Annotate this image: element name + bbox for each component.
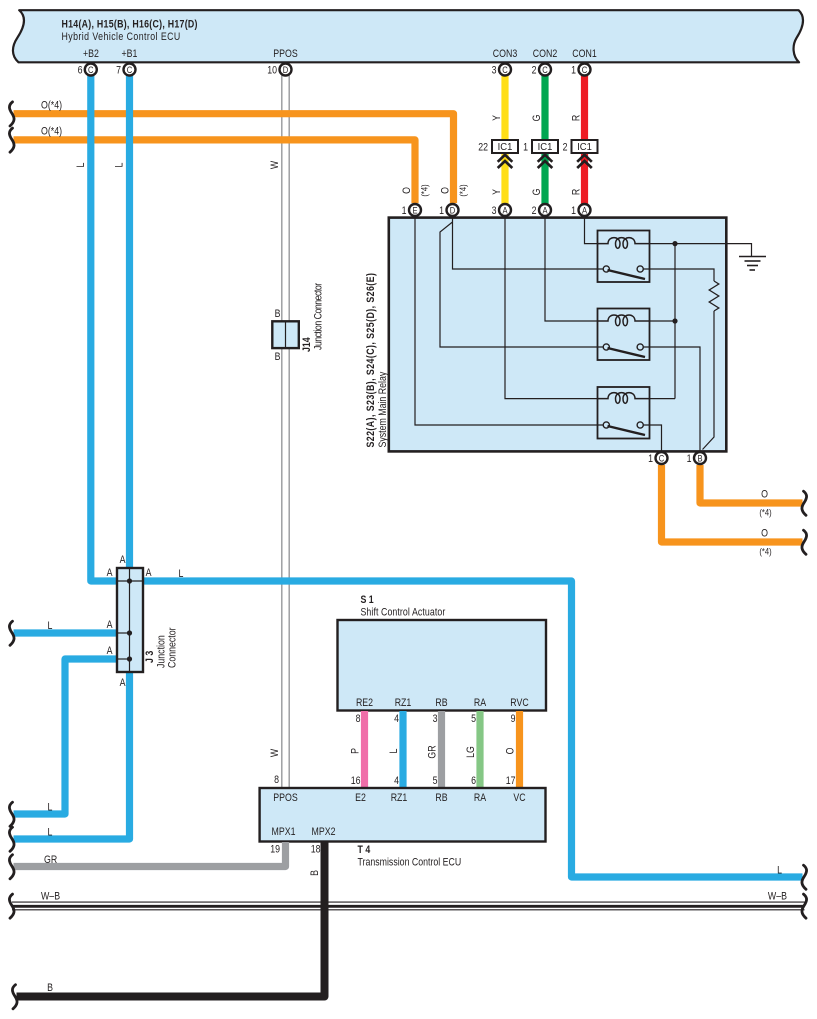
wire L blue from +B2 pin 6(C) down to J3: [91, 70, 117, 581]
svg-text:L: L: [114, 162, 126, 167]
torn end lower L wire: [9, 802, 14, 826]
svg-text:B: B: [47, 982, 53, 994]
wire L blue from left edge to J3 middle: [14, 629, 118, 636]
pin 1(E) of relay: [402, 204, 421, 217]
svg-text:1: 1: [402, 205, 407, 217]
svg-text:1: 1: [571, 205, 576, 217]
svg-text:O(*4): O(*4): [41, 100, 62, 112]
svg-text:2: 2: [563, 142, 568, 154]
svg-text:C: C: [542, 64, 547, 75]
torn end W-B left: [9, 894, 14, 918]
pin 7(C) of HV ECU: [116, 64, 135, 77]
wire R red CON1 to relay pin 1(A): [581, 70, 588, 204]
svg-text:Y: Y: [491, 189, 503, 195]
svg-text:5: 5: [471, 713, 476, 725]
svg-text:C: C: [127, 64, 132, 75]
svg-text:1: 1: [571, 65, 576, 77]
wire PPOS white W from HV ECU pin 10(D) to T4 pin 8: [282, 70, 289, 788]
svg-text:3: 3: [492, 205, 497, 217]
svg-text:D: D: [283, 64, 288, 75]
wire O(*4) lower orange from left edge to relay pin 1(E): [14, 140, 416, 203]
svg-text:1: 1: [439, 205, 444, 217]
svg-text:W: W: [269, 160, 281, 169]
svg-text:PPOS: PPOS: [273, 48, 298, 60]
junction connector J3: [107, 554, 184, 689]
svg-text:(*4): (*4): [759, 546, 771, 557]
svg-text:LG: LG: [465, 746, 477, 758]
torn end upper orange wire: [9, 102, 14, 126]
svg-text:A: A: [120, 677, 126, 689]
pin 2(C) of HV ECU: [532, 64, 551, 77]
svg-text:L: L: [48, 802, 53, 814]
wire GR gray S1 RB to T4 pin 5: [438, 711, 445, 788]
svg-text:P: P: [350, 748, 362, 754]
pin 1(C) of relay bottom: [648, 452, 667, 465]
svg-text:17: 17: [506, 775, 516, 787]
svg-text:O: O: [401, 187, 413, 194]
svg-text:L: L: [179, 568, 184, 580]
torn end right L wire: [802, 865, 807, 889]
torn end pin B orange wire: [802, 491, 807, 515]
wire L blue from J3 to right then down to right edge: [143, 581, 803, 877]
junction dot coil bus top: [672, 241, 677, 246]
svg-text:GR: GR: [44, 854, 57, 866]
svg-text:18: 18: [311, 844, 321, 856]
svg-text:W–B: W–B: [41, 891, 60, 903]
relay 1: [598, 231, 650, 283]
relay 2: [598, 309, 650, 361]
svg-text:7: 7: [116, 65, 121, 77]
junction dot coil bus middle: [672, 318, 677, 323]
svg-text:L: L: [388, 748, 400, 753]
svg-text:(*4): (*4): [457, 184, 468, 196]
relay 1 switch: [603, 266, 609, 272]
svg-text:RZ1: RZ1: [395, 697, 412, 709]
svg-text:A: A: [107, 567, 113, 579]
torn end mid L wire: [9, 621, 14, 645]
wire G green CON2 to relay pin 2(A): [541, 70, 548, 204]
ground: [739, 257, 766, 271]
svg-text:(*4): (*4): [419, 184, 430, 196]
svg-text:B: B: [275, 351, 281, 363]
svg-text:6: 6: [471, 775, 476, 787]
pin 1(C) of HV ECU: [571, 64, 590, 77]
wire from relay pin 1(E) to relay 3 switch: [415, 217, 603, 425]
svg-text:B: B: [697, 453, 702, 464]
Shift Control Actuator S1 box: [338, 594, 547, 710]
svg-text:RA: RA: [474, 792, 487, 804]
junction connector IC1 on yellow wire pin 22: [478, 140, 518, 168]
svg-text:W: W: [269, 748, 281, 757]
svg-text:(*4): (*4): [759, 507, 771, 518]
wire O(*4) upper orange from left edge to relay pin 1(D): [14, 114, 454, 203]
svg-text:GR: GR: [427, 745, 439, 758]
wire from relay pin 1(D) to relay 1 switch: [453, 217, 604, 269]
svg-text:S22(A), S23(B), S24(C), S25(D): S22(A), S23(B), S24(C), S25(D), S26(E): [365, 273, 377, 447]
svg-text:L: L: [75, 162, 87, 167]
wire W-B from left edge to right edge: [12, 902, 805, 910]
svg-text:2: 2: [532, 65, 537, 77]
relay 1 coil: [598, 238, 650, 249]
svg-text:6: 6: [78, 65, 83, 77]
svg-text:J14: J14: [301, 337, 313, 352]
svg-text:T 4: T 4: [358, 844, 371, 856]
svg-text:10: 10: [267, 65, 277, 77]
svg-text:R: R: [571, 189, 583, 195]
pin 1(D) of relay: [439, 204, 458, 217]
svg-text:B: B: [309, 870, 321, 876]
relay 3 coil: [598, 393, 650, 404]
wire from relay pin 1(A) to relay 1 coil: [585, 217, 598, 244]
wire L blue from J3 lower-left to left edge: [14, 659, 118, 814]
pin 3(C) of HV ECU: [492, 64, 511, 77]
relay 2 switch: [603, 344, 609, 350]
svg-text:9: 9: [511, 713, 516, 725]
pin 1(A) of relay: [571, 204, 590, 217]
svg-text:W–B: W–B: [768, 891, 787, 903]
wire branch from pin 1(D) to relay 2 switch: [440, 222, 603, 347]
svg-text:3: 3: [433, 713, 438, 725]
svg-text:Y: Y: [491, 115, 503, 121]
svg-text:Junction Connector: Junction Connector: [313, 282, 325, 350]
svg-text:R: R: [571, 115, 583, 121]
svg-text:5: 5: [433, 775, 438, 787]
svg-text:G: G: [531, 189, 543, 196]
wire O(*4) from relay pin 1(B) to right edge: [700, 465, 803, 503]
svg-text:O: O: [761, 489, 768, 501]
junction connector J14: [272, 282, 325, 363]
wire relay 2 coil to bus: [650, 320, 676, 322]
svg-text:3: 3: [492, 65, 497, 77]
svg-text:IC1: IC1: [538, 142, 553, 153]
svg-text:E: E: [412, 205, 417, 216]
svg-text:22: 22: [478, 142, 488, 154]
wire B black from T4 pin 18 MPX2 to left edge: [17, 842, 325, 997]
svg-text:C: C: [582, 64, 587, 75]
wire L blue from +B1 pin 7(C) down to J3 top: [126, 70, 133, 568]
svg-text:1: 1: [648, 453, 653, 465]
relay 2 coil: [598, 315, 650, 326]
svg-text:1: 1: [687, 453, 692, 465]
wire L blue S1 RZ1 to T4 pin 4: [399, 711, 406, 788]
pin 1(B) of relay bottom: [687, 452, 706, 465]
svg-text:C: C: [659, 453, 664, 464]
svg-text:1: 1: [523, 142, 528, 154]
svg-text:O: O: [505, 747, 517, 754]
svg-text:A: A: [120, 554, 126, 566]
pin 3(A) of relay: [492, 204, 511, 217]
svg-text:VC: VC: [513, 792, 525, 804]
svg-text:16: 16: [351, 775, 361, 787]
svg-text:L: L: [48, 620, 53, 632]
wire resistor to pin 1(B): [703, 311, 715, 450]
svg-text:RB: RB: [435, 792, 448, 804]
svg-text:C: C: [502, 64, 507, 75]
svg-text:2: 2: [532, 205, 537, 217]
wire relay 3 coil to bus: [650, 398, 676, 400]
svg-text:Connector: Connector: [167, 627, 179, 668]
svg-text:Shift Control Actuator: Shift Control Actuator: [361, 607, 446, 619]
wire GR gray from left edge to T4 pin 19 MPX1: [14, 842, 286, 867]
wire O orange S1 RVC to T4 pin 17: [516, 711, 523, 788]
svg-text:RZ1: RZ1: [391, 792, 408, 804]
wire from relay pin 3(A) to relay 3 coil: [505, 217, 598, 399]
relay coil bus wire to ground: [650, 244, 752, 257]
pin 2(A) of relay: [532, 204, 551, 217]
svg-text:O: O: [440, 187, 452, 194]
torn end bottom L wire: [9, 827, 14, 851]
svg-text:RB: RB: [435, 697, 448, 709]
svg-text:PPOS: PPOS: [273, 792, 298, 804]
wire P pink S1 RE2 to T4 pin 16: [361, 711, 368, 788]
wire from relay pin 2(A) to relay 2 coil: [545, 217, 598, 321]
svg-text:O(*4): O(*4): [41, 126, 62, 138]
torn end lower orange wire: [9, 128, 14, 152]
wire relay 3 switch to pin 1(C): [643, 425, 662, 451]
svg-text:8: 8: [274, 774, 279, 786]
svg-text:L: L: [48, 827, 53, 839]
svg-text:O: O: [761, 528, 768, 540]
pin 6(C) of HV ECU: [78, 64, 97, 77]
svg-text:Transmission Control ECU: Transmission Control ECU: [358, 857, 462, 869]
svg-text:MPX1: MPX1: [272, 826, 296, 838]
svg-text:System Main Relay: System Main Relay: [377, 372, 389, 448]
torn end GR wire: [9, 855, 14, 879]
torn end B wire: [12, 985, 17, 1009]
svg-text:RE2: RE2: [356, 697, 374, 709]
torn end W-B right: [802, 894, 807, 918]
svg-text:A: A: [107, 645, 113, 657]
pin 10(D) of HV ECU: [267, 64, 291, 77]
svg-text:RA: RA: [474, 697, 487, 709]
wire relay 1 switch to resistor: [643, 269, 714, 281]
svg-text:4: 4: [394, 713, 399, 725]
junction connector IC1 on red wire pin 2: [563, 140, 598, 168]
resistor: [709, 281, 719, 311]
svg-text:A: A: [502, 205, 507, 216]
wire O(*4) from relay pin 1(C) to right edge: [662, 465, 803, 542]
System Main Relay box S22(A)-S26(E): [365, 218, 726, 452]
wire L blue from J3 bottom to left edge: [14, 672, 130, 839]
svg-text:CON3: CON3: [493, 48, 518, 60]
svg-text:+B1: +B1: [122, 48, 138, 60]
svg-text:C: C: [88, 64, 93, 75]
svg-text:Hybrid Vehicle Control ECU: Hybrid Vehicle Control ECU: [62, 31, 181, 43]
svg-text:L: L: [777, 865, 782, 877]
svg-text:A: A: [582, 205, 587, 216]
svg-text:+B2: +B2: [83, 48, 99, 60]
wire Y yellow CON3 to relay pin 3(A): [501, 70, 508, 204]
svg-text:J 3: J 3: [144, 650, 156, 663]
svg-text:A: A: [107, 619, 113, 631]
svg-text:MPX2: MPX2: [312, 826, 336, 838]
svg-text:CON1: CON1: [572, 48, 597, 60]
svg-text:IC1: IC1: [577, 142, 592, 153]
torn end pin C orange wire: [802, 530, 807, 554]
wire relay 2 switch to pin 1(B): [643, 347, 700, 451]
svg-text:A: A: [542, 205, 547, 216]
svg-text:RVC: RVC: [510, 697, 528, 709]
junction connector IC1 on green wire pin 1: [523, 140, 558, 168]
svg-text:8: 8: [356, 713, 361, 725]
Transmission Control ECU T4 box: [260, 788, 546, 869]
svg-text:4: 4: [394, 775, 399, 787]
svg-text:H14(A), H15(B), H16(C), H17(D): H14(A), H15(B), H16(C), H17(D): [62, 19, 198, 31]
svg-text:E2: E2: [355, 792, 366, 804]
svg-text:CON2: CON2: [533, 48, 558, 60]
svg-text:B: B: [275, 308, 281, 320]
svg-text:A: A: [146, 567, 152, 579]
svg-text:IC1: IC1: [498, 142, 513, 153]
svg-text:D: D: [450, 205, 455, 216]
relay 3 switch: [603, 422, 609, 428]
svg-text:G: G: [531, 115, 543, 122]
svg-text:S 1: S 1: [361, 594, 375, 606]
wire LG light green S1 RA to T4 pin 6: [476, 711, 483, 788]
Hybrid Vehicle Control ECU banner H14(A), H15(B), H16(C), H17(D): [13, 10, 803, 62]
svg-text:19: 19: [270, 844, 280, 856]
relay 3: [598, 387, 650, 439]
wire coil bus vertical: [674, 244, 676, 399]
